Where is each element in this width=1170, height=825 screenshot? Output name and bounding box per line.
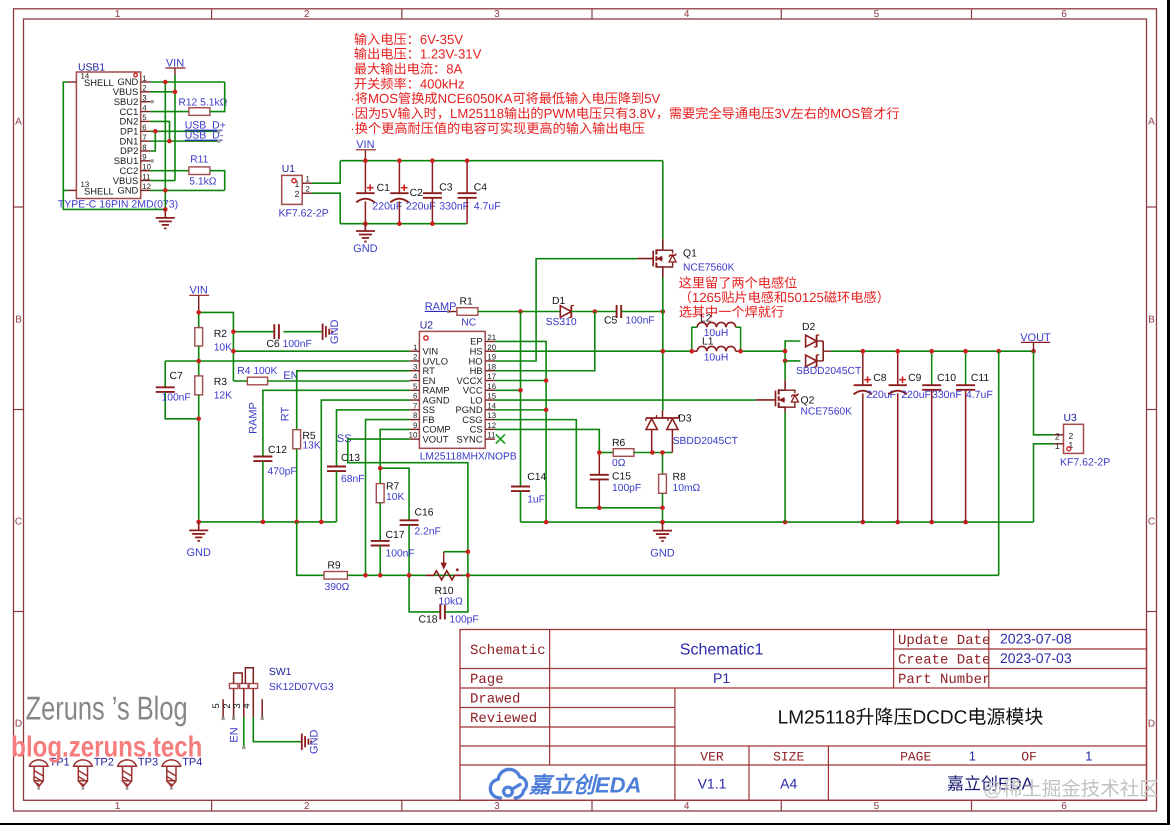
svg-text:SBDD2045CT: SBDD2045CT — [796, 366, 862, 377]
SW1 pins — [222, 699, 224, 717]
wire VIN rail to Q1 drain — [662, 161, 664, 239]
wire EN row — [268, 380, 410, 382]
svg-text:A4: A4 — [780, 776, 797, 792]
wire DN2 pin5 — [150, 121, 169, 141]
capacitor C4 — [466, 161, 468, 194]
svg-text:C: C — [15, 517, 22, 528]
svg-text:·换个更高耐压值的电容可实现更高的输入输出电压: ·换个更高耐压值的电容可实现更高的输入输出电压 — [350, 121, 645, 136]
wire R3 bottom to ground rail — [198, 395, 200, 522]
svg-text:Reviewed: Reviewed — [470, 711, 537, 727]
U2 pin 15 LO — [485, 399, 495, 401]
svg-text:SK12D07VG3: SK12D07VG3 — [269, 682, 334, 693]
capacitor C2 — [398, 161, 400, 194]
svg-text:R4 100K: R4 100K — [237, 366, 277, 377]
svg-text:3: 3 — [142, 94, 146, 103]
svg-text:2: 2 — [304, 9, 310, 20]
svg-text:100nF: 100nF — [625, 315, 654, 326]
wire DP1 / USB_D+ — [150, 130, 218, 132]
svg-text:Update Date: Update Date — [898, 633, 990, 649]
resistor R6 — [599, 452, 613, 454]
svg-text:D: D — [1148, 719, 1155, 730]
svg-text:C3: C3 — [439, 183, 453, 194]
svg-text:100pF: 100pF — [450, 615, 479, 626]
svg-text:220uF: 220uF — [372, 201, 402, 213]
diode D3 dual schottky — [646, 417, 679, 419]
U2 pin 3 RT — [410, 370, 420, 372]
wire input bottom rail — [340, 223, 467, 225]
svg-text:Create Date: Create Date — [898, 653, 990, 669]
svg-text:输出电压：1.23V-31V: 输出电压：1.23V-31V — [354, 47, 482, 62]
junction dots left section — [196, 310, 201, 315]
svg-text:KF7.62-2P: KF7.62-2P — [279, 208, 329, 220]
svg-text:C16: C16 — [415, 508, 434, 519]
wire C5 right to SW node — [621, 311, 663, 313]
svg-text:这里留了两个电感位: 这里留了两个电感位 — [679, 276, 798, 291]
svg-text:NCE7560K: NCE7560K — [683, 263, 735, 274]
svg-text:C5: C5 — [604, 315, 618, 326]
U2 pin 21 EP — [485, 340, 495, 342]
switch SW1 SK12D07VG3 — [229, 684, 238, 689]
junction dots U2 right — [544, 378, 549, 383]
capacitor C3 — [431, 161, 433, 194]
svg-text:3: 3 — [494, 9, 500, 20]
svg-text:11: 11 — [142, 172, 150, 181]
svg-text:KF7.62-2P: KF7.62-2P — [1060, 457, 1110, 469]
wire COMP row down — [380, 429, 409, 468]
svg-text:9: 9 — [413, 421, 417, 430]
capacitor C18 branch — [409, 575, 440, 612]
U1 pin 1 — [302, 182, 312, 184]
svg-text:B: B — [15, 315, 22, 326]
svg-text:SS310: SS310 — [546, 317, 577, 328]
wire VCC vertical R1 node to C14 — [520, 312, 522, 487]
svg-text:10K: 10K — [386, 492, 404, 503]
svg-text:SYNC: SYNC — [457, 433, 483, 444]
capacitor C14 — [511, 486, 530, 488]
resistor R7 — [379, 468, 381, 483]
title block outline — [460, 630, 1147, 801]
frame row ticks left/right — [14, 206, 24, 208]
ground flag SW1 — [301, 734, 303, 750]
USB1 pin 14 SHELL — [68, 81, 76, 83]
wire VBUS pin11 to VIN — [150, 180, 175, 182]
svg-text:U3: U3 — [1064, 413, 1078, 424]
svg-text:Page: Page — [470, 672, 504, 688]
svg-text:VER: VER — [700, 750, 724, 765]
svg-text:C4: C4 — [474, 183, 488, 194]
connector U3 body — [1064, 424, 1084, 453]
diode D1 SS310 — [560, 306, 571, 318]
U2 pin-1 marker circle — [424, 336, 428, 340]
svg-text:1: 1 — [1085, 749, 1092, 764]
junction dots input bottom rail — [363, 221, 368, 226]
svg-text:@稀土掘金技术社区: @稀土掘金技术社区 — [983, 779, 1159, 801]
transistor Q2 NCE7560K — [784, 361, 786, 380]
svg-text:1: 1 — [1055, 441, 1060, 451]
svg-text:5: 5 — [874, 801, 880, 812]
wire LO to Q2 gate — [495, 399, 756, 401]
capacitor C12 — [253, 456, 272, 458]
svg-text:330nF: 330nF — [932, 389, 962, 401]
svg-text:C6: C6 — [266, 339, 280, 350]
U1 pin 2 — [302, 192, 312, 194]
junction dots USB — [163, 80, 168, 85]
test point TP1 — [29, 760, 48, 766]
svg-text:GND: GND — [308, 729, 320, 754]
U3 pin 1 — [1054, 443, 1064, 445]
diode D2 dual schottky — [785, 341, 800, 351]
svg-text:嘉立创EDA: 嘉立创EDA — [528, 773, 641, 798]
wire R11 right loop to GND pin12 row — [210, 171, 225, 191]
svg-text:12K: 12K — [214, 391, 232, 402]
svg-text:R9: R9 — [327, 561, 341, 572]
svg-text:1: 1 — [115, 801, 121, 812]
svg-text:2: 2 — [304, 801, 310, 812]
svg-text:10: 10 — [409, 431, 418, 440]
svg-text:最大输出电流：8A: 最大输出电流：8A — [354, 62, 463, 77]
svg-text:2: 2 — [142, 84, 146, 93]
svg-text:VOUT: VOUT — [423, 433, 449, 444]
resistor R2 — [198, 312, 200, 327]
logo JLC EDA cloud — [490, 769, 526, 797]
capacitor C8 — [862, 351, 864, 385]
svg-text:10uH: 10uH — [704, 352, 729, 363]
svg-text:1: 1 — [142, 74, 146, 83]
junction dots FB line — [363, 573, 368, 578]
resistor R12 — [189, 108, 210, 116]
inductor L1 — [692, 350, 697, 352]
svg-text:D1: D1 — [552, 296, 566, 307]
potentiometer R10 — [426, 571, 463, 580]
junction dots D2 — [783, 349, 788, 354]
U2 pin 9 COMP — [410, 428, 420, 430]
wire RT row and down to R5 — [297, 371, 410, 430]
svg-text:D2: D2 — [802, 322, 816, 333]
svg-text:6: 6 — [1061, 801, 1067, 812]
svg-text:470pF: 470pF — [268, 467, 297, 478]
wire ground rail right — [521, 521, 1034, 523]
svg-text:RT: RT — [280, 406, 292, 421]
svg-text:C17: C17 — [386, 530, 405, 541]
capacitor C17 — [371, 540, 390, 542]
svg-text:Schematic1: Schematic1 — [680, 642, 764, 659]
R10 wiper arrow and tie — [443, 552, 445, 564]
screen edge bottom — [0, 823, 1170, 825]
svg-text:Q1: Q1 — [683, 249, 697, 260]
svg-text:选其中一个焊就行: 选其中一个焊就行 — [679, 305, 785, 320]
svg-text:5: 5 — [142, 113, 147, 122]
svg-text:NCE7560K: NCE7560K — [801, 407, 853, 418]
svg-text:1: 1 — [969, 749, 976, 764]
wire R6 right to D3 anodes — [634, 452, 673, 454]
transistor Q1 NCE7560K — [662, 239, 664, 250]
U2 pin 5 RAMP — [410, 389, 420, 391]
svg-text:C2: C2 — [410, 188, 424, 199]
svg-text:10mΩ: 10mΩ — [673, 483, 701, 494]
svg-text:C1: C1 — [377, 183, 391, 194]
svg-text:4: 4 — [242, 703, 253, 708]
USB1 pin 6 DP1 — [141, 130, 151, 132]
svg-text:输入电压：6V-35V: 输入电压：6V-35V — [354, 32, 463, 47]
svg-text:220uF: 220uF — [406, 201, 436, 213]
svg-text:7: 7 — [413, 401, 417, 410]
wire SW vertical — [662, 312, 664, 411]
svg-text:9: 9 — [142, 153, 146, 162]
wire D1 cathode to C5 — [571, 311, 616, 313]
wire U1 pin1 to VIN rail — [312, 161, 340, 184]
wire FB row down — [366, 420, 410, 576]
svg-text:B: B — [1148, 315, 1155, 326]
svg-text:·将MOS管换成NCE6050KA可将最低输入电压降到5V: ·将MOS管换成NCE6050KA可将最低输入电压降到5V — [350, 91, 660, 106]
USB1 pin 8 DP2 — [141, 150, 151, 152]
wire RAMP row and down to C12 — [263, 390, 410, 456]
svg-text:C9: C9 — [908, 373, 922, 384]
svg-text:V1.1: V1.1 — [698, 776, 727, 792]
svg-text:SHELL: SHELL — [84, 185, 114, 196]
connector USB1 body — [76, 72, 140, 199]
wire VIN pin1 row — [233, 350, 409, 352]
U2 pin 17 VCCX — [485, 380, 495, 382]
svg-text:5: 5 — [211, 703, 222, 708]
junction dots ground rail right — [544, 520, 549, 525]
wire VIN vertical USB — [174, 75, 176, 181]
U2 pin 20 HS — [485, 350, 495, 352]
svg-text:SBDD2045CT: SBDD2045CT — [673, 436, 739, 447]
wire D2 out to VOUT rail — [831, 350, 1034, 352]
wire AGND row down to rail — [321, 400, 409, 522]
svg-text:2.2nF: 2.2nF — [415, 527, 441, 538]
svg-text:C18: C18 — [419, 615, 438, 626]
svg-text:1: 1 — [115, 9, 121, 20]
wire VIN top rail — [340, 160, 663, 162]
wire VCCX to ground vertical — [495, 380, 546, 382]
svg-text:R7: R7 — [386, 482, 400, 493]
svg-text:R10: R10 — [435, 586, 454, 597]
wire R8 bottom — [662, 493, 664, 508]
USB1 pin 9 SBU1 — [141, 160, 151, 162]
USB1 pin 7 DN1 — [141, 140, 151, 142]
svg-text:330nF: 330nF — [439, 201, 469, 213]
D3 second diode — [667, 419, 678, 430]
U2 pin 11 SYNC — [485, 438, 495, 440]
title block grid lines — [460, 668, 1147, 670]
resistor R11 — [189, 167, 210, 175]
svg-text:R12 5.1kΩ: R12 5.1kΩ — [178, 98, 227, 109]
U2 pin 4 EN — [410, 380, 420, 382]
U2 pin 19 HO — [485, 360, 495, 362]
wire R2 bottom to UVLO node — [198, 346, 200, 376]
wire SS row down to C13 — [337, 410, 410, 467]
wire DP2 vertical tie — [150, 131, 155, 151]
svg-text:4: 4 — [684, 801, 690, 812]
wire CSG loop — [495, 420, 663, 508]
wire EP to ground vertical — [495, 341, 546, 522]
svg-text:GND: GND — [117, 185, 138, 196]
junction dots bootstrap row — [518, 309, 523, 314]
junction dots L1 — [690, 349, 695, 354]
svg-text:Part Number: Part Number — [898, 672, 990, 688]
wire SW1 pin3 EN stub — [243, 717, 245, 746]
svg-text:GND: GND — [329, 319, 341, 344]
wire VOUT rail to U3 pin2 — [1034, 351, 1054, 435]
U3 pin 2 — [1054, 434, 1064, 436]
wire UVLO row — [165, 360, 409, 362]
U2 pin 10 VOUT — [410, 438, 420, 440]
capacitor C9 — [897, 351, 899, 385]
svg-text:5: 5 — [874, 9, 880, 20]
svg-text:4: 4 — [684, 9, 690, 20]
connector U1 body — [282, 175, 303, 204]
svg-text:10: 10 — [142, 162, 151, 171]
svg-text:100nF: 100nF — [283, 339, 312, 350]
svg-text:17: 17 — [487, 372, 496, 381]
svg-text:6: 6 — [413, 392, 417, 401]
svg-text:2: 2 — [306, 185, 310, 194]
svg-text:18: 18 — [487, 362, 496, 371]
wire HB to bootstrap node — [495, 312, 595, 371]
wire SHELL left vertical — [63, 82, 165, 209]
resistor R5 — [293, 430, 301, 449]
svg-text:4: 4 — [413, 372, 418, 381]
U2 pin 8 FB — [410, 419, 420, 421]
U2 pin 6 AGND — [410, 399, 420, 401]
junction dot SW — [661, 349, 666, 354]
junction dots VIN rail — [363, 158, 368, 163]
USB1 pin 12 GND — [141, 189, 151, 191]
U2 pin 1 VIN — [410, 350, 420, 352]
U2 pin 18 HB — [485, 370, 495, 372]
wire CS to R6 node — [495, 429, 599, 452]
wire VOUT pin10 sense loop — [348, 439, 468, 575]
IC U2 body — [419, 331, 485, 448]
svg-text:R8: R8 — [673, 472, 687, 483]
svg-text:GND: GND — [650, 548, 675, 560]
svg-text:4: 4 — [142, 103, 147, 112]
wire R9 left to ground rail — [297, 522, 324, 575]
svg-text:blog.zeruns.tech: blog.zeruns.tech — [11, 732, 202, 764]
USB1 pin 10 CC2 — [141, 170, 151, 172]
USB1 pin 2 VBUS — [141, 91, 151, 93]
wire VOUT sense vertical — [998, 351, 1000, 575]
wire Q1 source to SW — [662, 278, 664, 312]
svg-text:C12: C12 — [268, 445, 287, 456]
USB1 pin 13 SHELL — [68, 189, 76, 191]
ground flag C6 — [322, 324, 324, 340]
svg-text:13: 13 — [487, 411, 496, 420]
capacitor C10 — [931, 351, 933, 385]
svg-text:2: 2 — [294, 189, 299, 199]
USB1 pin 4 CC1 — [141, 111, 151, 113]
svg-text:10kΩ: 10kΩ — [439, 597, 464, 608]
svg-text:0Ω: 0Ω — [612, 458, 626, 469]
svg-text:220uF: 220uF — [866, 389, 896, 401]
ground symbol sense — [662, 522, 664, 531]
wire R10 wiper to right terminal — [444, 551, 468, 553]
svg-text:C15: C15 — [612, 472, 631, 483]
svg-text:100pF: 100pF — [612, 483, 641, 494]
svg-text:LM25118升降压DCDC电源模块: LM25118升降压DCDC电源模块 — [778, 708, 1044, 729]
wire R12 right loop to GND row — [210, 82, 225, 112]
svg-text:GND: GND — [353, 243, 378, 255]
svg-text:6: 6 — [142, 123, 146, 132]
svg-text:开关频率：400kHz: 开关频率：400kHz — [354, 76, 465, 91]
svg-text:R6: R6 — [612, 438, 626, 449]
wire PGND to ground vertical — [495, 409, 546, 411]
test point TP3 — [118, 760, 137, 766]
svg-text:11: 11 — [487, 431, 495, 440]
capacitor C1 — [364, 161, 366, 194]
svg-text:5.1kΩ: 5.1kΩ — [189, 177, 216, 188]
svg-text:1: 1 — [294, 179, 299, 189]
unconnected pin squares USB — [151, 100, 154, 103]
USB1 pin-1 marker circle — [134, 73, 138, 77]
SW1 unconnected squares — [222, 717, 225, 720]
svg-text:SW1: SW1 — [269, 667, 292, 678]
wire COMP node to C16 — [380, 468, 409, 520]
svg-text:OF: OF — [1021, 750, 1037, 765]
wire CC1 to R12 — [150, 111, 189, 113]
wire R5 bottom to ground rail — [296, 449, 298, 522]
screen edge right — [1167, 0, 1170, 825]
svg-text:C8: C8 — [873, 373, 887, 384]
USB1 pin 5 DN2 — [141, 120, 151, 122]
svg-text:13K: 13K — [302, 441, 320, 452]
capacitor C5 — [616, 305, 618, 318]
no-connect X on SYNC pin — [496, 434, 505, 443]
svg-text:Drawed: Drawed — [470, 692, 520, 708]
capacitor C7 — [164, 361, 166, 387]
svg-text:8: 8 — [413, 411, 417, 420]
U2 pin 7 SS — [410, 409, 420, 411]
wire R1 to D1 — [478, 311, 560, 313]
U3 pin-1 marker circle — [1067, 447, 1071, 451]
wire FB sense line — [347, 574, 998, 576]
wire U3 pin1 to ground rail — [1034, 444, 1054, 522]
U2 pin 14 PGND — [485, 409, 495, 411]
svg-text:220uF: 220uF — [901, 389, 931, 401]
junction dots VOUT rail — [861, 349, 866, 354]
svg-text:8: 8 — [142, 143, 146, 152]
svg-text:12: 12 — [487, 421, 496, 430]
svg-text:1uF: 1uF — [527, 494, 545, 505]
capacitor C11 — [965, 351, 967, 385]
svg-text:NC: NC — [461, 317, 476, 328]
svg-text:Schematic: Schematic — [470, 643, 546, 659]
USB1 pin 11 VBUS — [141, 180, 151, 182]
svg-text:7: 7 — [142, 133, 146, 142]
svg-text:1: 1 — [306, 175, 310, 184]
test point TP2 — [74, 760, 93, 766]
capacitor C6 — [233, 331, 274, 333]
wire VIN node to R4 branch — [199, 312, 234, 381]
svg-text:R2: R2 — [214, 329, 228, 340]
svg-text:100nF: 100nF — [386, 549, 415, 560]
svg-text:2023-07-08: 2023-07-08 — [1000, 631, 1072, 647]
wire GND pin1 row — [150, 81, 224, 83]
D2 second diode — [806, 355, 817, 367]
svg-text:390Ω: 390Ω — [325, 582, 350, 593]
svg-text:12: 12 — [142, 182, 151, 191]
wire U1 pin2 to bottom rail — [312, 193, 340, 224]
svg-text:EN: EN — [229, 727, 241, 742]
svg-text:L2: L2 — [700, 314, 712, 325]
svg-text:（1265贴片电感和50125磁环电感）: （1265贴片电感和50125磁环电感） — [679, 290, 890, 305]
resistor R8 — [662, 453, 664, 475]
svg-text:C: C — [1148, 517, 1155, 528]
USB1 pin 1 GND — [141, 81, 151, 83]
svg-text:A: A — [15, 117, 22, 128]
svg-text:19: 19 — [487, 353, 496, 362]
